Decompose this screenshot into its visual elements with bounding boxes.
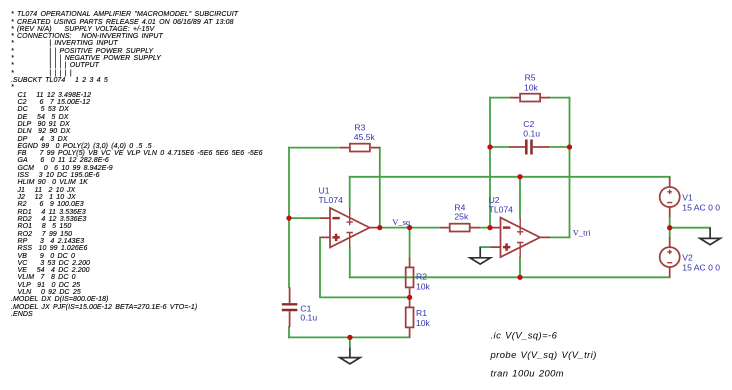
svg-text:R1: R1 (416, 308, 427, 318)
svg-text:15 AC 0 0: 15 AC 0 0 (682, 203, 720, 213)
svg-text:.ic V(V_sq)=-6: .ic V(V_sq)=-6 (491, 330, 558, 341)
svg-text:tran 100u 200m: tran 100u 200m (491, 368, 565, 379)
svg-text:R3: R3 (354, 122, 365, 132)
svg-text:25k: 25k (454, 212, 469, 222)
svg-text:V_sq: V_sq (392, 217, 411, 227)
svg-text:TL074: TL074 (489, 204, 514, 214)
svg-text:0.1u: 0.1u (300, 312, 317, 322)
svg-text:10k: 10k (524, 82, 539, 92)
svg-text:10k: 10k (416, 281, 431, 291)
svg-text:45.5k: 45.5k (354, 132, 376, 142)
svg-text:V_tri: V_tri (573, 228, 592, 238)
svg-text:TL074: TL074 (319, 195, 344, 205)
svg-text:15 AC 0 0: 15 AC 0 0 (682, 263, 720, 273)
svg-text:R2: R2 (416, 272, 427, 282)
svg-text:probe V(V_sq) V(V_tri): probe V(V_sq) V(V_tri) (490, 349, 597, 360)
svg-text:0.1u: 0.1u (523, 128, 540, 138)
svg-text:R5: R5 (525, 73, 536, 83)
svg-text:V2: V2 (682, 252, 693, 262)
svg-text:V1: V1 (682, 192, 693, 202)
svg-text:10k: 10k (416, 318, 431, 328)
